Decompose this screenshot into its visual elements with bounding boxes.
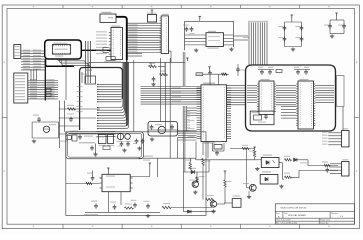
supervisor U9 (100, 174, 133, 191)
svg-text:Sheet 1 of 1: Sheet 1 of 1 (320, 219, 330, 222)
wire bus segment to U1 (81, 49, 111, 51)
capacitor C30 (33, 115, 41, 123)
resistor R52 (162, 203, 171, 209)
net label box at U4 (196, 73, 203, 76)
reset supervisor U2 with VCC (147, 10, 157, 22)
misc wires Q stage (171, 158, 225, 207)
connector J2 (330, 159, 349, 176)
diode D4 bottom wire (184, 210, 216, 213)
svg-text:Date: 8-Jan-2007: Date: 8-Jan-2007 (276, 219, 291, 222)
svg-text:File: C:\Design\MCU.ddb: File: C:\Design\MCU.ddb (276, 223, 297, 225)
connector outline right of module (337, 76, 345, 131)
U1 left pin labels (96, 31, 107, 54)
svg-text:MICROCONTROLLER UNIT (M): MICROCONTROLLER UNIT (M) (281, 208, 307, 210)
ground U3 left (194, 49, 198, 53)
filter caps in DC-DC (118, 142, 130, 153)
module left edge labels (77, 86, 83, 112)
transistor Q2 (203, 166, 217, 208)
VCC rail wire (139, 156, 196, 159)
module pin rows upper block (97, 84, 122, 102)
wire fan to header JP1 (128, 23, 162, 56)
module pin rows lower block with elbow bus (97, 62, 129, 129)
U4 lower left wires out (178, 131, 197, 140)
RC cluster mid (149, 62, 168, 86)
U9 bottom rail (85, 192, 160, 213)
connector P1 left header (14, 45, 21, 59)
svg-text:Title: Title (284, 212, 288, 215)
cap C43 (144, 201, 151, 218)
cap C40 (91, 201, 98, 209)
header JP1 (160, 14, 169, 54)
wire fan U6 right (315, 86, 334, 103)
diode D2 on wire (184, 160, 210, 174)
interface IC U3 (185, 31, 234, 49)
U6 lower left rows (281, 107, 296, 119)
junction wires down-left column (60, 101, 65, 149)
vertical pair from U3 area down (183, 52, 186, 172)
decoupling caps group C24 C25 with VCC (324, 13, 346, 38)
SRAM U5 (257, 79, 276, 115)
output net of DC-DC (90, 144, 110, 157)
5V regulator rounded box (148, 121, 178, 136)
svg-text:Size: Size (276, 213, 280, 215)
bus tap vertical through group B (44, 59, 46, 101)
svg-text:Revision: Revision (331, 213, 338, 215)
cap C42 (131, 200, 137, 208)
small parts column inside module (81, 72, 96, 84)
net flag label inside module (85, 69, 92, 71)
svg-text:SPECIAL BOARD: SPECIAL BOARD (288, 214, 306, 217)
DC-DC U7 box (99, 135, 107, 146)
backup battery BT1 loop (32, 122, 59, 138)
input RC at U9 (66, 171, 102, 185)
wire loop around U3 (185, 21, 234, 50)
isolation area outer box (66, 132, 206, 216)
ground opto1 (255, 167, 259, 171)
resistor R51 vertical (202, 159, 211, 166)
module lower rows tail (84, 132, 116, 138)
wire from JP1 bottom (89, 51, 185, 68)
wires battery to logic (59, 109, 100, 134)
output wires to J2 (292, 160, 339, 178)
thick clock bus from X1 (116, 17, 127, 126)
wire fan group B (28, 79, 58, 99)
output diode D3 (294, 158, 298, 162)
capacitor C10 (183, 25, 189, 32)
resistor R62 on output (284, 156, 292, 161)
caps above U4 (186, 58, 245, 85)
connector P2 left header (14, 73, 28, 103)
wire fan U5 to U6 (276, 86, 296, 105)
junction blocks (60, 136, 71, 142)
battery BT1 symbol (43, 124, 56, 133)
DC-DC U8 box (107, 135, 114, 146)
transistor Q3 (243, 183, 256, 199)
nested elbow wires from bus box (58, 59, 91, 67)
title block text (276, 208, 344, 225)
sub box under U5 (250, 111, 274, 125)
vertical bus triple center (161, 58, 171, 158)
connector J1 (322, 128, 349, 147)
resistor network RP1 box (52, 43, 70, 57)
small option jumper blocks (46, 89, 58, 97)
resistor R60 with VCC (249, 147, 261, 160)
svg-text:Drawn by:: Drawn by: (320, 222, 329, 225)
wires U3 to bus (234, 36, 250, 40)
wire fan group A to bus box (21, 50, 45, 70)
optocoupler U10 (261, 155, 279, 168)
wire U1 lower links (103, 48, 109, 53)
resistor R41 (125, 204, 134, 210)
regulator wires caps (148, 125, 178, 159)
crystal Y2 circuit under U4 (213, 141, 225, 156)
decoupling caps group C20-C23 with VCC (279, 15, 304, 51)
DC-DC converter double border box (66, 132, 144, 159)
module outline thick rounded box (80, 68, 123, 131)
VCC above U9 (107, 168, 110, 174)
VCC arrow top center (199, 16, 202, 21)
ground U3 right (229, 48, 233, 52)
U9 output wire to VCC arrow (130, 160, 151, 177)
short rows to U4 lower pins (187, 108, 197, 116)
resistor R50 vertical (186, 160, 192, 170)
optocoupler U11 (260, 171, 278, 184)
module cap pair A (258, 67, 282, 75)
label row in DC-DC box (79, 142, 95, 143)
transformer T1 (117, 133, 124, 142)
inter-group link verticals (31, 60, 66, 101)
U4 left lower pin labels (183, 111, 190, 131)
bus loop thick rounded box (45, 40, 82, 66)
oscillator X1 box (100, 12, 116, 23)
transformer T2 (125, 134, 131, 142)
opto interconnect wire (279, 163, 284, 180)
small input parts DC-DC (69, 131, 118, 142)
title block (275, 204, 354, 224)
series parts R30 C31 (67, 105, 76, 122)
U4 bottom drop wires (188, 120, 209, 158)
wire fan module to U4 (141, 87, 202, 105)
regulator VR1 symbol (155, 124, 166, 134)
LED and resistor at J2 (322, 162, 330, 173)
microcontroller U1 (104, 26, 123, 63)
wire to opto row (196, 158, 255, 160)
wire down to DCDC box (133, 60, 135, 132)
transistor Q1 (189, 172, 205, 188)
memory module thick rounded box (246, 65, 336, 131)
flash U6 (296, 79, 315, 129)
wire fan into U5 left (247, 86, 257, 103)
Q stage grounds (193, 191, 216, 214)
main MCU U4 (197, 83, 232, 144)
ground battery (32, 139, 36, 143)
cap C41 (110, 202, 116, 210)
U4 right pin wires to module (227, 86, 246, 105)
wire and resistor R63 to opto supply (230, 145, 255, 188)
resistor R54 relay drive (224, 171, 232, 203)
vertical wire bundle column (86, 41, 91, 83)
relay K1 box (224, 196, 241, 208)
ground opto2 (279, 185, 283, 189)
module cap pair B (294, 67, 310, 75)
resistor R61 (284, 173, 292, 179)
filter caps DC-DC second pair (133, 139, 144, 151)
capacitor C11 (190, 27, 195, 35)
vertical data bus 9 lines (248, 21, 268, 65)
rail drop wires (157, 143, 183, 212)
